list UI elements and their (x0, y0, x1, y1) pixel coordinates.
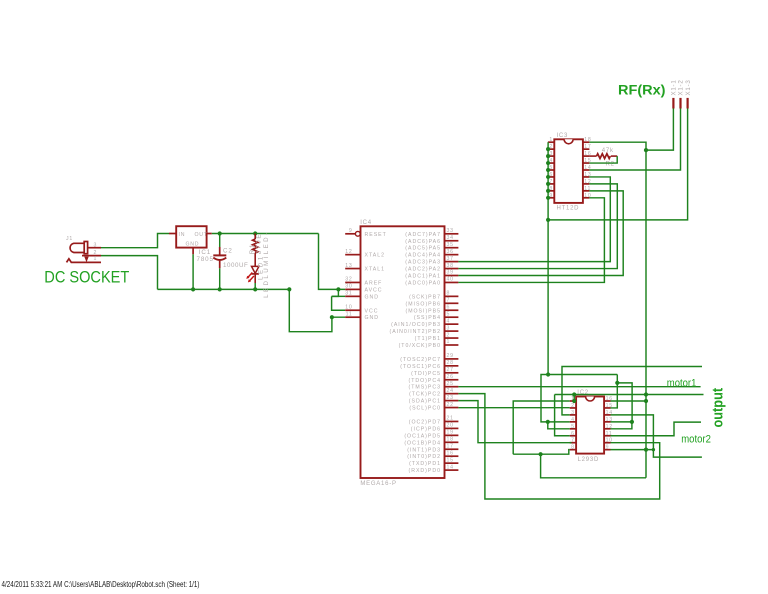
junction (546, 189, 550, 193)
IC4 pin 11 GND stub (345, 316, 360, 318)
IC3 pin 6 stub (548, 176, 554, 178)
svg-text:X1-2: X1-2 (678, 79, 685, 95)
IC3 pin 12 stub (583, 183, 590, 185)
svg-text:IC4: IC4 (360, 220, 372, 226)
wire PC2 to IC2 pin 10 via bottom loop (458, 394, 659, 499)
svg-text:(T1)PB1: (T1)PB1 (415, 336, 441, 342)
IC2 pin 12 stub (604, 428, 610, 430)
wire H-gamma down to IC2 pin 6 (555, 395, 570, 436)
svg-text:motor2: motor2 (681, 434, 711, 446)
svg-text:(TOSC1)PC6: (TOSC1)PC6 (400, 364, 441, 370)
svg-text:(AIN1/OC0)PB3: (AIN1/OC0)PB3 (391, 322, 441, 328)
wire branch to pins 12/13 (617, 383, 632, 422)
ground loop to GND pin 11 (289, 289, 345, 331)
IC4 pin 3 (AIN0/INT2)PB2 stub (445, 330, 459, 332)
svg-text:3: 3 (571, 410, 575, 416)
wire PC0 to IC2 pin 2 (458, 407, 569, 409)
svg-text:(TCK)PC2: (TCK)PC2 (409, 392, 441, 398)
IC4 pin 30 AVCC stub (345, 288, 360, 290)
svg-text:4: 4 (571, 417, 575, 423)
pin X1-1 (672, 98, 674, 109)
junction (546, 154, 550, 158)
IC4 pin 32 AREF stub (345, 281, 360, 283)
IC4 pin 36 (ADC4)PA4 stub (445, 254, 459, 256)
junction (546, 196, 550, 200)
svg-text:(TDI)PC5: (TDI)PC5 (411, 371, 441, 377)
wire PA3 to IC3 pin 13 (458, 177, 610, 262)
junction (539, 452, 543, 456)
junction ground rail end (287, 287, 291, 291)
svg-text:HT12D: HT12D (557, 205, 580, 211)
wire C2 top (219, 234, 221, 248)
ground bus left of IC3 (547, 142, 549, 220)
J1 pin 2 (82, 255, 101, 257)
svg-text:GND: GND (186, 241, 200, 247)
wire PC1 to IC2 pin 7 (458, 401, 571, 443)
svg-text:XTAL2: XTAL2 (365, 253, 385, 259)
svg-text:19: 19 (447, 430, 454, 436)
IC3 pin 13 stub (583, 176, 590, 178)
svg-text:X1-3: X1-3 (685, 79, 692, 95)
IC3 pin 18 stub (583, 141, 590, 143)
svg-text:4: 4 (447, 318, 451, 324)
wire branch to IC2 pin 1 (573, 395, 575, 402)
svg-text:35: 35 (447, 242, 454, 248)
IC4 pin 34 (ADC6)PA6 stub (445, 240, 459, 242)
IC3 pin 4 stub (548, 162, 554, 164)
svg-text:L293D: L293D (578, 457, 599, 463)
IC4 pin 20 (ICP)PD6 stub (445, 427, 459, 429)
IC2 pin 5 stub (570, 428, 576, 430)
svg-text:RESET: RESET (365, 232, 387, 238)
IC4 pin 16 (INT0)PD2 stub (445, 455, 459, 457)
svg-text:26: 26 (447, 374, 454, 380)
+5V rail from IC1 OUT (212, 233, 319, 235)
svg-text:8: 8 (447, 291, 451, 297)
wire IC1 GND to ground rail (192, 254, 194, 289)
LED emission arrows (248, 273, 254, 281)
IC2 pin 8 stub (570, 449, 576, 451)
IC2 pin 10 stub (604, 442, 610, 444)
svg-text:11: 11 (346, 311, 353, 317)
svg-text:(ADC0)PA0: (ADC0)PA0 (405, 280, 441, 286)
C2 plate + (213, 254, 226, 256)
IC4 pin 4 (AIN1/OC0)PB3 stub (445, 323, 459, 325)
svg-text:IN: IN (179, 232, 186, 238)
IC4 pin 5 (SS)PB4 stub (445, 316, 459, 318)
wire to VCC pin 10 (332, 296, 346, 310)
IC4 pin 8 (SCK)PB7 stub (445, 295, 459, 297)
J1 pin 1 switch contact (67, 259, 102, 263)
wire IC2 pin 1 feeder (513, 401, 570, 454)
wire IC2 pin 16 (611, 400, 647, 402)
svg-text:27: 27 (447, 367, 454, 373)
svg-text:MEGA16-P: MEGA16-P (360, 481, 396, 487)
svg-text:AVCC: AVCC (365, 287, 383, 293)
pin X1-2 (679, 98, 681, 109)
svg-text:39: 39 (447, 270, 454, 276)
svg-text:(TOSC2)PC7: (TOSC2)PC7 (400, 357, 441, 363)
IC4 pin 25 (TMS)PC3 stub (445, 386, 459, 388)
IC3 pin 17 stub (583, 148, 590, 150)
svg-text:(SS)PB4: (SS)PB4 (414, 315, 441, 321)
wire branch to IC2 pin 5 (548, 422, 570, 429)
IC2 pin 11 stub (604, 435, 610, 437)
svg-text:31: 31 (345, 291, 352, 297)
wire to GND31 pin (332, 289, 339, 296)
svg-text:DC SOCKET: DC SOCKET (44, 269, 129, 287)
ground rail below IC3 to X1-3 (548, 109, 688, 220)
svg-text:GND: GND (365, 315, 380, 321)
wire J1 pin3 to IC1 IN (101, 234, 169, 248)
junction (630, 420, 634, 424)
IC2 pin 2 stub (570, 407, 576, 409)
wire IC2 pin13-pin12 hook (611, 422, 632, 429)
svg-text:(MOSI)PB5: (MOSI)PB5 (405, 308, 441, 314)
svg-text:7805: 7805 (197, 256, 214, 263)
svg-text:30: 30 (345, 284, 352, 290)
IC3 pin 3 stub (548, 155, 554, 157)
svg-text:22: 22 (447, 402, 454, 408)
IC3 pin 16 stub (583, 155, 590, 157)
svg-text:output: output (711, 388, 727, 428)
svg-text:(OC2)PD7: (OC2)PD7 (409, 419, 441, 425)
wire IC2 pin 14 to motor2 lower (611, 415, 702, 457)
microcontroller IC4 MEGA16-P body (361, 226, 445, 478)
svg-text:37: 37 (447, 256, 454, 262)
connector J1 DC barrel jack (70, 243, 84, 252)
svg-text:1000UF: 1000UF (223, 262, 248, 269)
LED lead (254, 274, 256, 283)
svg-text:20: 20 (447, 423, 454, 429)
junction (644, 448, 648, 452)
IC2 pin 6 stub (570, 435, 576, 437)
svg-text:47k: 47k (602, 148, 614, 154)
svg-text:5: 5 (571, 424, 575, 430)
svg-text:32: 32 (345, 277, 352, 283)
IC3 pin 11 stub (583, 190, 590, 192)
IC2 pin 14 stub (604, 414, 610, 416)
svg-text:J1: J1 (66, 236, 73, 242)
junction (253, 231, 257, 235)
svg-text:(ADC4)PA4: (ADC4)PA4 (405, 253, 441, 259)
svg-text:6: 6 (571, 431, 575, 437)
junction (546, 182, 550, 186)
svg-text:2: 2 (447, 332, 451, 338)
svg-text:8: 8 (571, 445, 575, 451)
voltage regulator IC1 7805 (176, 226, 206, 247)
svg-text:1: 1 (447, 339, 451, 345)
svg-text:(TMS)PC3: (TMS)PC3 (409, 385, 442, 391)
svg-text:9: 9 (606, 445, 610, 451)
svg-text:25: 25 (447, 381, 454, 387)
svg-text:(TDO)PC4: (TDO)PC4 (409, 378, 442, 384)
svg-text:6: 6 (447, 304, 451, 310)
svg-text:LEDLUMILED-: LEDLUMILED- (263, 230, 270, 297)
IC2 pin 15 stub (604, 407, 610, 409)
svg-text:3: 3 (447, 325, 451, 331)
junction (191, 287, 195, 291)
decoder IC3 HT12D body (554, 139, 583, 203)
IC4 pin 15 (TXD)PD1 stub (445, 462, 459, 464)
junction (546, 161, 550, 165)
IC4 pin 18 (OC1B)PD4 stub (445, 441, 459, 443)
IC4 pin 6 (MOSI)PB5 stub (445, 309, 459, 311)
svg-text:(MISO)PB6: (MISO)PB6 (405, 301, 441, 307)
wire VSS net H-beta (541, 375, 617, 422)
wire C2 bottom (219, 268, 221, 289)
svg-text:OUT: OUT (195, 232, 208, 238)
svg-text:7: 7 (447, 298, 451, 304)
IC4 pin 17 (INT1)PD3 stub (445, 448, 459, 450)
wire H-beta down to IC2 pin 15 (611, 375, 618, 408)
svg-text:(RXD)PD0: (RXD)PD0 (409, 468, 442, 474)
IC4 pin 27 (TDI)PC5 stub (445, 372, 459, 374)
svg-text:(SCL)PC0: (SCL)PC0 (409, 406, 441, 412)
IC4 pin 9 RESET stub (345, 233, 355, 235)
wire PC3 motor1 net (458, 386, 700, 388)
svg-text:(T0/XCK)PB0: (T0/XCK)PB0 (399, 343, 441, 349)
wire IC2 pin 9 (611, 449, 654, 451)
wire PA0 to IC3 pin 10 (458, 198, 604, 283)
svg-text:(ADC7)PA7: (ADC7)PA7 (405, 232, 441, 238)
LED cathode bar (252, 273, 259, 275)
wire X1-1 down (646, 109, 673, 151)
IC4 pin 2 (T1)PB1 stub (445, 337, 459, 339)
svg-text:(OC1B)PD4: (OC1B)PD4 (404, 440, 441, 446)
IC4 pin 13 XTAL1 stub (345, 268, 360, 270)
svg-text:(ADC2)PA2: (ADC2)PA2 (405, 267, 441, 273)
svg-text:motor1: motor1 (667, 377, 697, 389)
wire J1 pin2 to ground rail (101, 256, 158, 290)
IC2 pin 3 stub (570, 414, 576, 416)
IC4 pin 31 GND stub (345, 295, 360, 297)
svg-text:X1-1: X1-1 (671, 79, 678, 95)
IC4 pin 23 (SDA)PC1 stub (445, 400, 459, 402)
svg-text:17: 17 (447, 443, 454, 449)
svg-text:(TXD)PD1: (TXD)PD1 (409, 461, 441, 467)
svg-text:AREF: AREF (365, 280, 383, 286)
svg-text:1: 1 (94, 256, 98, 262)
svg-text:XTAL1: XTAL1 (365, 267, 385, 273)
svg-text:29: 29 (447, 353, 454, 359)
svg-text:13: 13 (345, 263, 352, 269)
svg-text:12: 12 (345, 249, 352, 255)
junction (644, 392, 648, 396)
IC4 pin 29 (TOSC2)PC7 stub (445, 358, 459, 360)
junction (546, 168, 550, 172)
wire +5V down to AVCC row (319, 234, 346, 290)
IC2 pin 4 stub (570, 421, 576, 423)
IC4 pin 26 (TDO)PC4 stub (445, 379, 459, 381)
IC4 pin 12 XTAL2 stub (345, 254, 360, 256)
junction (615, 381, 619, 385)
svg-text:14: 14 (447, 464, 454, 470)
junction (644, 148, 648, 152)
IC4 pin 37 (ADC3)PA3 stub (445, 261, 459, 263)
svg-text:(ADC1)PA1: (ADC1)PA1 (405, 274, 441, 280)
svg-text:16: 16 (447, 450, 454, 456)
IC2 pin 7 stub (570, 442, 576, 444)
svg-text:24: 24 (447, 388, 454, 394)
svg-text:(SCK)PB7: (SCK)PB7 (409, 294, 441, 300)
wire LED to rail (254, 283, 256, 289)
IC3 pin 5 stub (548, 169, 554, 171)
IC4 pin 24 (TCK)PC2 stub (445, 393, 459, 395)
svg-text:1: 1 (549, 137, 553, 143)
svg-text:33: 33 (447, 228, 454, 234)
svg-text:VCC: VCC (365, 308, 379, 314)
wire IC3 pin 18 down long vertical (589, 142, 646, 478)
svg-text:34: 34 (447, 235, 454, 241)
junction (546, 218, 550, 222)
svg-text:(ADC6)PA6: (ADC6)PA6 (405, 239, 441, 245)
wire inner ground loop (541, 454, 646, 478)
IC4 pin 7 (MISO)PB6 stub (445, 302, 459, 304)
svg-text:(OC1A)PD5: (OC1A)PD5 (404, 433, 441, 439)
junction (546, 175, 550, 179)
IC4 pin 22 (SCL)PC0 stub (445, 407, 459, 409)
svg-text:18: 18 (447, 437, 454, 443)
svg-text:23: 23 (447, 395, 454, 401)
wire IC2 pin 3 up to open end H-alpha (562, 367, 702, 415)
resistor R2 47k (589, 155, 596, 157)
IC3 pin 1 stub (548, 141, 554, 143)
IC4 pin 28 (TOSC1)PC6 stub (445, 365, 459, 367)
svg-text:5: 5 (447, 311, 451, 317)
J1 pin 3 (88, 247, 101, 249)
motor driver IC2 L293D body (576, 397, 604, 454)
IC4 pin 10 VCC stub (345, 309, 360, 311)
wire IC2 pin 11 to motor2 upper (611, 422, 702, 436)
IC1 pin IN stub (169, 233, 176, 235)
IC4 pin 33 (ADC7)PA7 stub (445, 233, 459, 235)
wire R2 to IC3 pin 15 (589, 156, 617, 163)
svg-text:GND: GND (365, 294, 380, 300)
junction (253, 287, 257, 291)
IC4 pin 19 (OC1A)PD5 stub (445, 434, 459, 436)
IC3 pin 9 stub (548, 197, 554, 199)
svg-text:(INT0)PD2: (INT0)PD2 (407, 454, 441, 460)
svg-text:38: 38 (447, 263, 454, 269)
wire IC2 pin 8 jog (513, 450, 570, 455)
IC2 pin 13 stub (604, 421, 610, 423)
svg-text:(AIN0/INT2)PB2: (AIN0/INT2)PB2 (390, 329, 441, 335)
IC3 pin 15 stub (583, 162, 590, 164)
IC4 pin 35 (ADC5)PA5 stub (445, 247, 459, 249)
svg-text:17: 17 (584, 144, 591, 150)
svg-text:28: 28 (447, 360, 454, 366)
svg-text:(INT1)PD3: (INT1)PD3 (407, 447, 441, 453)
IC4 pin 40 (ADC0)PA0 stub (445, 281, 459, 283)
junction (644, 399, 648, 403)
IC2 pin 9 stub (604, 449, 610, 451)
svg-text:(ICP)PD6: (ICP)PD6 (411, 426, 441, 432)
svg-text:3: 3 (94, 242, 98, 248)
IC4 pin 14 (RXD)PD0 stub (445, 469, 459, 471)
junction (330, 315, 334, 319)
svg-text:15: 15 (447, 457, 454, 463)
svg-text:(ADC3)PA3: (ADC3)PA3 (405, 260, 441, 266)
IC3 pin 7 stub (548, 183, 554, 185)
wire PA2 to IC3 pin 12 (458, 184, 617, 269)
IC4 pin 39 (ADC1)PA1 stub (445, 275, 459, 277)
pin X1-3 (686, 98, 688, 109)
svg-text:10: 10 (345, 304, 352, 310)
svg-text:21: 21 (447, 416, 454, 422)
svg-text:36: 36 (447, 249, 454, 255)
svg-text:40: 40 (447, 277, 454, 283)
IC3 pin 10 stub (583, 197, 590, 199)
junction on pin 1 (572, 399, 576, 403)
IC3 pin 2 stub (548, 148, 554, 150)
IC3 pin 8 stub (548, 190, 554, 192)
IC4 pin 1 (T0/XCK)PB0 stub (445, 344, 459, 346)
IC4 pin 38 (ADC2)PA2 stub (445, 268, 459, 270)
junction (546, 420, 550, 424)
IC1 pin OUT stub (207, 233, 212, 235)
wire HT12D bus down to H-beta (547, 220, 549, 375)
junction (546, 147, 550, 151)
svg-text:(SDA)PC1: (SDA)PC1 (409, 399, 441, 405)
wire PA1 to IC3 pin 11 (458, 191, 623, 276)
junction (652, 448, 655, 451)
wire X1-2 to IC3 pin 14 (589, 109, 680, 171)
svg-text:270E: 270E (256, 233, 263, 255)
IC1 pin GND stub (192, 248, 194, 255)
wire net H-gamma (555, 394, 704, 396)
junction (572, 392, 576, 396)
svg-text:IC2: IC2 (577, 390, 589, 396)
svg-text:IC3: IC3 (557, 133, 569, 139)
ground rail (158, 288, 290, 290)
IC2 pin 16 stub (604, 400, 610, 402)
junction HT12D bus (546, 372, 550, 376)
IC2 pin 1 stub (570, 400, 576, 402)
junction (218, 287, 222, 291)
LED LED1 (252, 266, 259, 273)
svg-text:(ADC5)PA5: (ADC5)PA5 (405, 246, 441, 252)
svg-text:C2: C2 (223, 247, 233, 254)
svg-text:4/24/2011 5:33:21 AM C:\Users: 4/24/2011 5:33:21 AM C:\Users\ABLAB\Desk… (2, 579, 200, 589)
junction (336, 287, 340, 291)
junction (218, 231, 222, 235)
IC3 pin 14 stub (583, 169, 590, 171)
svg-text:RF(Rx): RF(Rx) (618, 83, 666, 99)
svg-text:9: 9 (349, 228, 353, 234)
svg-text:2: 2 (571, 403, 575, 409)
IC4 pin 21 (OC2)PD7 stub (445, 420, 459, 422)
svg-text:7: 7 (571, 438, 575, 444)
